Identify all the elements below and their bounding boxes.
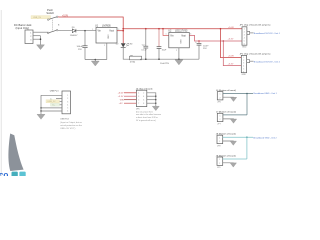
ground GND2 [91, 61, 99, 66]
wire red +5V from switch top [58, 17, 123, 43]
svg-text:LED: LED [129, 43, 133, 45]
svg-text:+3.3V: +3.3V [228, 39, 234, 41]
svg-text:3: 3 [67, 101, 68, 103]
net stub +3.3V J5 [124, 95, 136, 97]
svg-text:2: 2 [244, 31, 245, 33]
svg-text:7: 7 [138, 103, 139, 105]
wire J6 pin1 [223, 93, 253, 95]
switch pole B [47, 32, 49, 34]
connector J7 bottom of board [216, 111, 236, 126]
svg-text:2: 2 [243, 60, 244, 62]
regulator U2 [166, 30, 192, 60]
connector J8 bottom of board [216, 133, 236, 148]
wire USB gnd vertical [40, 95, 42, 114]
svg-text:3: 3 [244, 34, 245, 36]
wire U2 vout 3.3V [189, 35, 242, 41]
svg-text:JP1 (Top of board with jumpers: JP1 (Top of board with jumpers) [240, 24, 271, 27]
svg-text:USB_5V: USB_5V [33, 17, 42, 19]
wire ground rail mid [140, 58, 199, 60]
svg-text:2: 2 [220, 97, 221, 99]
connector J9 bottom of board [216, 154, 236, 169]
wire J6 pin2 to gnd [223, 96, 234, 99]
svg-text:2: 2 [176, 50, 177, 52]
svg-text:(Input Only): (Input Only) [16, 26, 30, 30]
wire LED to R1 [123, 48, 130, 59]
regulator U1 [92, 25, 119, 60]
resistor R1 [130, 56, 142, 64]
net label USB5V yellow [31, 16, 51, 19]
wire +5V feed vertical right [221, 28, 243, 30]
net label D+ usb [51, 103, 60, 106]
switch pole A [47, 19, 49, 21]
note USB [60, 118, 82, 131]
wire jack pin2 [33, 35, 41, 37]
svg-text:+5.0V: +5.0V [228, 56, 234, 58]
wire J8 pin2 to gnd [223, 140, 234, 143]
svg-text:GND: GND [107, 35, 109, 40]
svg-text:6: 6 [143, 100, 144, 102]
wire JP2 pins 2,3 merge [247, 60, 250, 63]
ground GND9 [230, 163, 236, 167]
svg-text:+5.0V: +5.0V [62, 16, 69, 18]
connector J1 DC barrel jack [14, 23, 33, 44]
svg-text:8: 8 [143, 103, 144, 105]
wires USB pins [41, 94, 62, 96]
wire jack pin1 to switch [33, 31, 48, 33]
svg-text:(Do not jumper from: (Do not jumper from [136, 110, 153, 113]
svg-text:+3.3V: +3.3V [228, 64, 234, 66]
svg-text:6: 6 [243, 71, 244, 73]
svg-text:10uF: 10uF [162, 49, 167, 51]
svg-text:2: 2 [67, 98, 68, 100]
wire ground rail U1 [85, 59, 107, 61]
svg-text:JP2 (Top of board with jumpers: JP2 (Top of board with jumpers) [240, 52, 271, 55]
svg-text:actual protection on the: actual protection on the [60, 124, 82, 127]
svg-text:5: 5 [244, 40, 245, 42]
switch S1 push switch [31, 8, 60, 34]
connector J6 bottom of board [216, 89, 236, 104]
svg-text:1: 1 [138, 93, 139, 95]
svg-text:4: 4 [243, 66, 244, 68]
svg-text:2: 2 [143, 93, 144, 95]
wire diode to U1 [76, 30, 96, 32]
svg-text:10uF/25V: 10uF/25V [160, 63, 170, 65]
svg-text:0.1uF: 0.1uF [141, 49, 147, 51]
svg-text:25V: 25V [203, 48, 207, 50]
wire +3.3V feed vertical right [223, 41, 241, 66]
svg-text:5: 5 [67, 108, 68, 110]
ground GND1 [37, 45, 45, 50]
svg-text:1: 1 [92, 29, 93, 31]
ground GND7 [230, 119, 236, 123]
node junction at C1 [84, 30, 86, 32]
wire jog into U2 vin [163, 29, 169, 36]
svg-text:(Input or Output, but no: (Input or Output, but no [60, 121, 82, 124]
net stub +5.0V J5 [124, 92, 136, 94]
svg-text:USB +5V 'VCC'): USB +5V 'VCC') [60, 128, 75, 130]
svg-text:Breadboard GND - Unit 1: Breadboard GND - Unit 1 [254, 92, 278, 95]
svg-text:1: 1 [220, 115, 221, 117]
net stub VIN J5 [124, 99, 136, 101]
svg-text:GND: GND [179, 39, 181, 44]
svg-text:a direct short from 3.3V or: a direct short from 3.3V or [136, 116, 158, 119]
svg-text:1: 1 [219, 159, 220, 161]
wire main 5V rail [123, 28, 220, 30]
svg-text:2: 2 [104, 45, 105, 47]
capacitor C3 [157, 29, 170, 65]
svg-text:GND: GND [242, 47, 247, 49]
ground GND6 [230, 97, 236, 101]
svg-text:one side to the other because: one side to the other because [136, 113, 161, 116]
svg-text:GND: GND [242, 74, 247, 76]
svg-text:VIN: VIN [120, 100, 124, 102]
svg-text:25V: 25V [78, 49, 82, 51]
wire J9 pin2 to gnd [223, 162, 234, 165]
svg-text:1: 1 [166, 34, 167, 36]
capacitor C4 [195, 41, 208, 59]
svg-text:+5V: +5V [119, 103, 123, 105]
svg-text:4: 4 [67, 105, 68, 107]
svg-text:2: 2 [219, 163, 220, 165]
svg-text:+5.0V: +5.0V [118, 93, 124, 95]
svg-text:6: 6 [244, 43, 245, 45]
header JP1 [240, 24, 271, 49]
svg-text:3: 3 [243, 63, 244, 65]
svg-text:USB Port: USB Port [60, 118, 69, 121]
diode D1 [70, 27, 78, 37]
svg-text:Vout: Vout [181, 35, 186, 38]
wire switch pole B to diode [58, 29, 72, 31]
wire J8-J9 vertical teal [246, 137, 248, 159]
svg-text:5: 5 [138, 100, 139, 102]
svg-text:+3.3V: +3.3V [118, 96, 124, 98]
svg-text:Vout: Vout [109, 30, 114, 33]
svg-text:1N4007: 1N4007 [70, 35, 78, 37]
note J5 [136, 108, 161, 121]
svg-text:co: co [0, 171, 8, 176]
wire JP1 pins 2,3 merge [247, 31, 250, 34]
wire J7 pin1 [223, 114, 247, 116]
svg-text:100uF/: 100uF/ [77, 46, 84, 48]
ground GND4 [152, 106, 159, 110]
svg-text:USB_5V: USB_5V [48, 101, 57, 103]
LED D2 [116, 43, 133, 47]
header JP2 [240, 52, 271, 76]
capacitor C2 [141, 29, 148, 60]
wire jack pin3 [33, 38, 41, 40]
wire J5 right pins to gnd [147, 93, 156, 106]
svg-text:1: 1 [220, 94, 221, 96]
switch linkage dashed [52, 20, 54, 31]
svg-text:Switch: Switch [46, 11, 54, 15]
capacitor C1 [77, 31, 88, 60]
svg-text:1: 1 [243, 57, 244, 59]
svg-text:+5.0V: +5.0V [228, 27, 234, 29]
wire J6-J7 vertical [246, 94, 248, 115]
net stub USB5V J5 [124, 102, 136, 104]
svg-text:2: 2 [220, 119, 221, 121]
svg-text:4: 4 [143, 96, 144, 98]
svg-text:470Ω: 470Ω [130, 62, 136, 64]
wire U1 vout red rail [117, 30, 123, 32]
svg-text:1: 1 [67, 95, 68, 97]
svg-text:Breadboard GND - Unit 2: Breadboard GND - Unit 2 [253, 136, 277, 139]
svg-text:6: 6 [67, 111, 68, 113]
svg-text:3: 3 [138, 96, 139, 98]
svg-text:Breadboard 5V/3.3V - Unit 1: Breadboard 5V/3.3V - Unit 1 [254, 32, 281, 35]
wire J7 pin2 to gnd [223, 118, 234, 121]
wire J8 pin1 teal [223, 136, 253, 138]
svg-text:1: 1 [244, 28, 245, 30]
ground GND8 [230, 141, 236, 145]
svg-text:USB Port: USB Port [50, 90, 59, 93]
ground GND5 [37, 114, 45, 119]
svg-text:5: 5 [243, 69, 244, 71]
svg-text:Breadboard 5V/3.3V - Unit 2: Breadboard 5V/3.3V - Unit 2 [254, 60, 281, 63]
watermark logo [0, 134, 26, 180]
wire jack gnd vertical [40, 36, 42, 45]
header J5 top of board [136, 87, 153, 106]
svg-text:5V to ground will occur): 5V to ground will occur) [136, 119, 156, 122]
connector USB port [50, 90, 71, 114]
net label USB5V usb [46, 100, 60, 103]
wire J9 pin1 teal [223, 158, 247, 160]
svg-text:4: 4 [244, 37, 245, 39]
ground GND3 [175, 60, 183, 65]
svg-text:1: 1 [219, 137, 220, 139]
svg-text:2: 2 [219, 141, 220, 143]
